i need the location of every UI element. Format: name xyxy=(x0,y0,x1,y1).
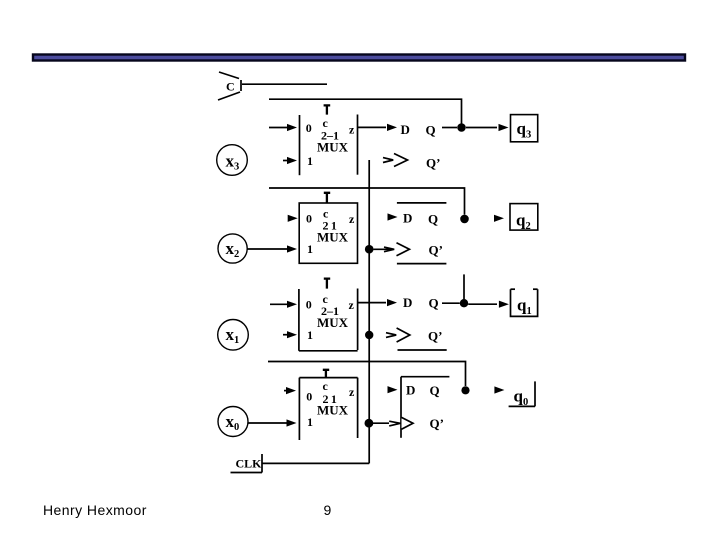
svg-text:Q’: Q’ xyxy=(429,242,443,257)
svg-text:1: 1 xyxy=(307,328,313,342)
svg-text:Q: Q xyxy=(428,211,438,226)
svg-text:D: D xyxy=(406,382,415,397)
svg-text:Q’: Q’ xyxy=(426,156,440,171)
svg-text:Q: Q xyxy=(430,383,440,398)
svg-text:D: D xyxy=(401,122,410,137)
svg-text:D: D xyxy=(403,211,412,226)
svg-text:0: 0 xyxy=(306,297,312,311)
svg-text:q0: q0 xyxy=(514,387,529,409)
svg-text:1: 1 xyxy=(307,154,313,168)
svg-text:MUX: MUX xyxy=(317,140,349,155)
svg-text:x2: x2 xyxy=(226,239,240,260)
svg-text:x0: x0 xyxy=(226,412,240,433)
svg-text:0: 0 xyxy=(306,390,312,404)
svg-text:Q: Q xyxy=(429,295,439,310)
svg-text:q3: q3 xyxy=(517,119,532,141)
svg-text:Q’: Q’ xyxy=(430,416,444,431)
svg-text:x3: x3 xyxy=(226,152,240,173)
svg-text:MUX: MUX xyxy=(317,315,349,330)
svg-text:MUX: MUX xyxy=(317,402,349,417)
svg-text:C: C xyxy=(226,80,235,94)
svg-text:z: z xyxy=(349,212,355,226)
svg-text:1: 1 xyxy=(307,415,313,429)
svg-text:Q: Q xyxy=(426,122,436,137)
svg-text:x1: x1 xyxy=(226,325,240,346)
svg-text:z: z xyxy=(349,122,355,136)
svg-text:0: 0 xyxy=(306,212,312,226)
svg-text:0: 0 xyxy=(306,121,312,135)
svg-text:D: D xyxy=(403,295,412,310)
svg-text:q2: q2 xyxy=(516,211,531,233)
svg-text:1: 1 xyxy=(307,242,313,256)
svg-text:Q’: Q’ xyxy=(428,329,442,344)
svg-text:z: z xyxy=(349,298,355,312)
svg-text:MUX: MUX xyxy=(317,230,349,245)
svg-text:q1: q1 xyxy=(517,296,532,318)
svg-text:z: z xyxy=(349,385,355,399)
svg-text:CLK: CLK xyxy=(236,456,263,470)
